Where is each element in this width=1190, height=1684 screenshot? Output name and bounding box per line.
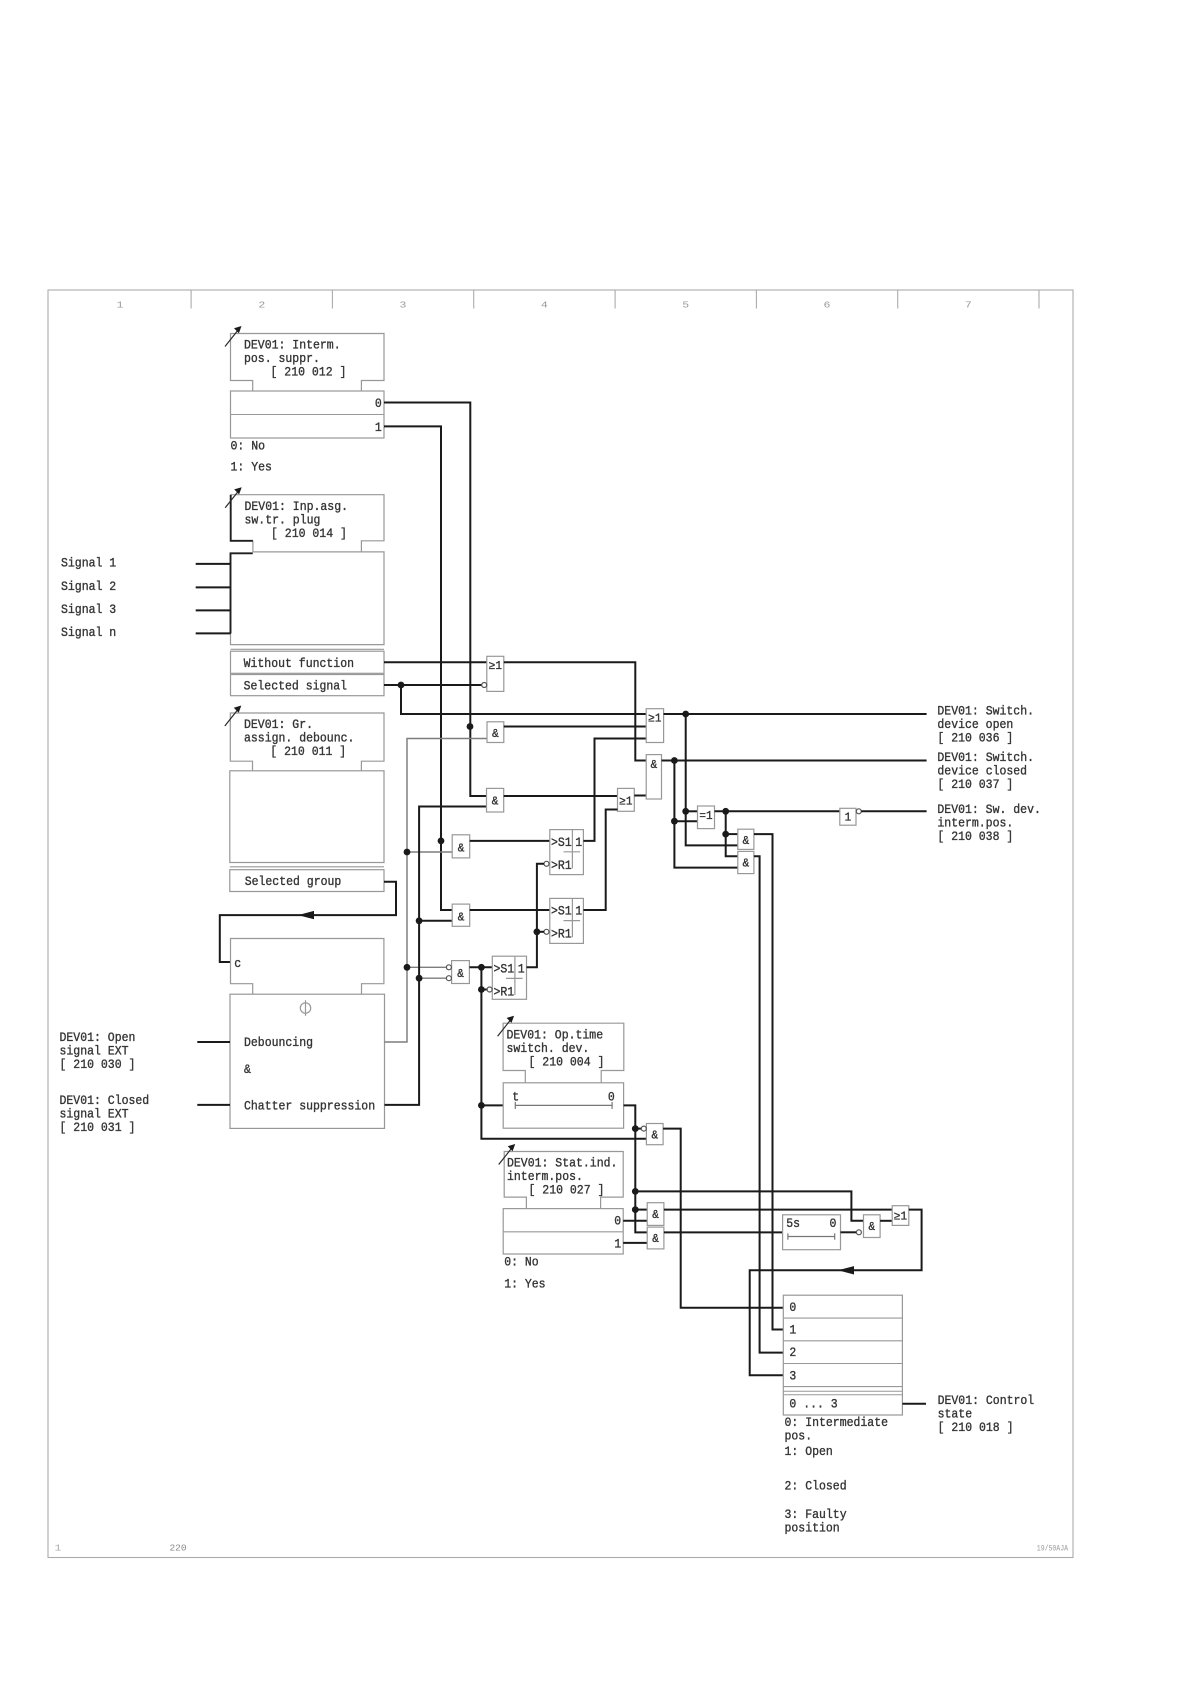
wire: 210 012 value 0 to AND gates (net A0) [384, 403, 487, 797]
output label DEV01: Sw. dev. interm.pos. [ 210 038 ] [937, 802, 1041, 844]
flip-flop FF2 (closed state) [550, 898, 584, 943]
svg-text:&: & [492, 796, 499, 809]
svg-text:1: 1 [575, 835, 582, 850]
wire: inverter output to DEV01 Sw. dev. interm.pos. [861, 810, 926, 812]
output label DEV01: Switch. device closed [ 210 037 ] [937, 750, 1034, 792]
svg-text:0: No: 0: No [504, 1254, 539, 1269]
svg-text:1: 1 [614, 1236, 621, 1251]
svg-text:7: 7 [965, 300, 972, 311]
wire: FF2 output to OR gate G4 [583, 810, 617, 911]
wire: FF1 output to OR gate G5 [583, 739, 646, 841]
svg-text:&: & [651, 759, 658, 772]
column scale ticks and numbers [117, 290, 1039, 311]
wire: G11 output to control state row 0 [663, 1129, 783, 1308]
svg-text:6: 6 [824, 300, 831, 311]
wire: G3 output to OR gate G4 [504, 795, 618, 797]
FF2 R1 negation [544, 929, 549, 934]
group assignment box 210 011 [230, 771, 384, 863]
parameter header DEV01: Gr. assign. debounc. [ 210 011 ] [225, 706, 384, 771]
svg-text:[ 210 037 ]: [ 210 037 ] [937, 777, 1013, 792]
wire: G15 output to 5s timer input [664, 1231, 783, 1233]
wire: Signal 1 input [196, 563, 231, 565]
svg-text:&: & [458, 842, 465, 855]
wire: G10 output to FF3 S1/R1, op-time timer and AND G11 (net CHG) [469, 964, 646, 1139]
selector box 210 027 values 0/1 [503, 1209, 623, 1254]
input label DEV01: Closed signal EXT [ 210 031 ] [60, 1093, 150, 1135]
wire: G9 output to FF2 S1 [470, 909, 550, 911]
svg-text:1: 1 [117, 300, 124, 311]
row Selected group [230, 870, 384, 892]
svg-text:1: 1 [518, 962, 525, 977]
svg-text:0: No: 0: No [231, 438, 266, 453]
svg-text:0: 0 [375, 396, 382, 411]
value label 1: Yes [231, 460, 272, 475]
input label Signal 2 [61, 579, 116, 594]
parameter header DEV01: Interm. pos. suppr. [ 210 012 ] [225, 326, 384, 391]
AND gate G13 (control state closed) [738, 851, 754, 873]
footer drawing code 19/50AJA [1037, 1545, 1068, 1554]
svg-text:[ 210 031 ]: [ 210 031 ] [60, 1120, 136, 1135]
wire: G1 output to AND gate G7 (net WF) [504, 662, 646, 760]
value label 1: Yes (210 027) [504, 1276, 545, 1291]
FF3 R1 negation [487, 987, 492, 992]
svg-text:≥1: ≥1 [489, 660, 502, 673]
wire: 210 027 value 1 to AND gate G15 [623, 1242, 647, 1244]
wire: 210 027 value 0 to AND gate G14 [623, 1220, 647, 1222]
svg-text:>S1: >S1 [551, 904, 572, 919]
value label 2: Closed [785, 1478, 847, 1493]
svg-text:>R1: >R1 [494, 984, 515, 999]
svg-text:1: 1 [845, 811, 852, 824]
separator line under group box [230, 866, 384, 868]
svg-text:position: position [785, 1521, 840, 1536]
wire: FF3 output to FF1/FF2 reset inputs [527, 864, 545, 968]
svg-text:&: & [457, 968, 464, 981]
svg-text:2: 2 [258, 300, 265, 311]
wire: G13 output to control state row 2 [754, 856, 783, 1352]
input label Signal 1 [61, 556, 116, 571]
svg-text:[ 210 011 ]: [ 210 011 ] [270, 744, 346, 759]
flip-flop FF1 (open state) [550, 830, 584, 875]
svg-text:Signal 2: Signal 2 [61, 579, 116, 594]
svg-text:>S1: >S1 [551, 835, 572, 850]
svg-text:Debouncing: Debouncing [244, 1035, 313, 1050]
input label DEV01: Open signal EXT [ 210 030 ] [60, 1030, 136, 1072]
value label 1: Open [785, 1444, 833, 1459]
OR gate G1 >=1 [482, 656, 504, 691]
svg-text:Selected group: Selected group [245, 874, 342, 889]
svg-text:2: 2 [789, 1345, 796, 1360]
wire: closed signal EXT input [197, 1104, 230, 1106]
row Selected signal [231, 675, 385, 696]
svg-text:Signal 3: Signal 3 [61, 602, 116, 617]
wire: G17 output feedback to control state row 3 (with left arrowhead) [750, 1210, 922, 1376]
AND gate G12 (control state open) [738, 829, 754, 849]
wire: G4 output to AND gate G7 [634, 795, 646, 797]
svg-text:c: c [234, 956, 241, 971]
svg-text:1: Yes: 1: Yes [504, 1276, 545, 1291]
svg-text:1: Open: 1: Open [785, 1444, 833, 1459]
wire: Selected group feedback to c box (with left arrowhead) [220, 882, 396, 962]
svg-text:=1: =1 [699, 810, 712, 823]
OR gate G17 >=1 [892, 1206, 909, 1226]
svg-text:0: 0 [789, 1300, 796, 1315]
wire: Selected signal to OR gate G1 (negated) and to OR gate G5 (net SEL) [384, 682, 646, 714]
svg-text:&: & [652, 1209, 659, 1222]
svg-text:5: 5 [682, 300, 689, 311]
footer sheet number 1 [55, 1544, 62, 1554]
svg-text:>R1: >R1 [551, 858, 572, 873]
svg-text:&: & [652, 1233, 659, 1246]
svg-text:[ 210 038 ]: [ 210 038 ] [937, 829, 1013, 844]
OR gate G4 >=1 [618, 788, 635, 811]
svg-text:2: Closed: 2: Closed [785, 1478, 847, 1493]
wire: control state output [902, 1403, 926, 1405]
svg-text:[ 210 004 ]: [ 210 004 ] [529, 1054, 605, 1069]
svg-text:1: 1 [789, 1322, 796, 1337]
svg-text:Signal n: Signal n [61, 625, 116, 640]
svg-text:1: 1 [575, 904, 582, 919]
svg-text:4: 4 [541, 300, 548, 311]
AND gate G8 (set open FF) [438, 835, 470, 858]
flip-flop FF3 (change memory) [492, 956, 526, 999]
parameter header DEV01: Op.time switch. dev. [ 210 004 ] [498, 1016, 624, 1083]
wire: 5s timer output to AND gate G16 (negated) [841, 1231, 857, 1233]
wire: debounced open signal net (gray) [385, 739, 488, 1043]
wire: Signal 2 input [196, 586, 231, 588]
c box (selected group register) [231, 939, 384, 995]
svg-text:>S1: >S1 [494, 962, 515, 977]
svg-text:≥1: ≥1 [648, 713, 661, 726]
svg-text:[ 210 030 ]: [ 210 030 ] [60, 1057, 136, 1072]
svg-text:Without function: Without function [244, 656, 354, 671]
svg-text:&: & [244, 1062, 251, 1077]
svg-text:Selected signal: Selected signal [244, 679, 348, 694]
control state selector block [783, 1295, 902, 1415]
svg-text:[ 210 012 ]: [ 210 012 ] [271, 365, 347, 380]
wire: Without function to OR gate G1 [384, 661, 487, 663]
svg-text:Signal 1: Signal 1 [61, 556, 116, 571]
row Without function [231, 651, 385, 673]
svg-text:&: & [743, 835, 750, 848]
value label 0: No [231, 438, 266, 453]
wire: open signal EXT input [197, 1041, 230, 1043]
svg-text:5s: 5s [786, 1216, 800, 1231]
output label DEV01: Switch. device open [ 210 036 ] [937, 703, 1034, 745]
input label Signal n [61, 625, 116, 640]
svg-text:&: & [652, 1129, 659, 1142]
inverter gate 1 [840, 808, 862, 825]
svg-text:>R1: >R1 [551, 927, 572, 942]
svg-text:0 ... 3: 0 ... 3 [789, 1396, 837, 1411]
output label DEV01: Control state [ 210 018 ] [938, 1393, 1035, 1435]
svg-text:pos.: pos. [785, 1429, 813, 1444]
wire: G8 output to FF1 S1 [470, 840, 550, 842]
input label Signal 3 [61, 602, 116, 617]
svg-text:220: 220 [169, 1543, 186, 1554]
op time timer box t/0 [503, 1083, 623, 1128]
svg-text:0: 0 [830, 1216, 837, 1231]
svg-text:3: 3 [400, 300, 407, 311]
wire: Signal n input [196, 632, 231, 634]
AND gate G16 [856, 1215, 880, 1238]
footer page number 220 [169, 1543, 186, 1554]
AND gate G3 (value0 & closed) [487, 788, 504, 812]
wire: G7 output to DEV01 Switch. device closed (net CL) [662, 757, 927, 868]
parameter header DEV01: Stat.ind. interm.pos. [ 210 027 ] [499, 1144, 624, 1209]
input assignment box 210 014 [231, 552, 385, 645]
wire: debounced closed signal net [385, 807, 487, 1105]
svg-text:1: 1 [55, 1544, 62, 1554]
wire: G12 output to control state row 1 [754, 834, 783, 1329]
wire: 210 012 value 1 to AND gates (net A1) [384, 426, 452, 910]
wire: Signal 3 input [196, 609, 231, 611]
wire: G14 output to OR gate G17 [664, 1209, 892, 1211]
AND gate G14 (status indication) [647, 1203, 664, 1226]
page frame border [48, 290, 1073, 1558]
svg-text:&: & [492, 728, 499, 741]
FF1 R1 negation [544, 861, 549, 866]
selector box 210 012 values 0/1 [231, 391, 385, 438]
svg-text:1: Yes: 1: Yes [231, 460, 272, 475]
svg-text:0: 0 [614, 1214, 621, 1229]
AND gate G9 (set closed FF) [452, 904, 470, 926]
separator line under input box [231, 648, 385, 650]
svg-text:1: 1 [375, 420, 382, 435]
svg-text:≥1: ≥1 [619, 795, 632, 808]
svg-text:Chatter suppression: Chatter suppression [244, 1099, 375, 1114]
OR gate G5 >=1 (switching device open) [646, 709, 663, 743]
wire: G16 output to OR gate G17 [880, 1220, 892, 1222]
svg-text:≥1: ≥1 [894, 1210, 907, 1223]
wire: G5 output to DEV01 Switch. device open (net OP) [664, 711, 927, 846]
value label 0: No (210 027) [504, 1254, 539, 1269]
svg-text:&: & [869, 1221, 876, 1234]
AND gate G11 (faulty position detect) [641, 1124, 663, 1145]
svg-text:0: 0 [608, 1089, 615, 1104]
wire: G6 output to inverter and AND gates (net XO) [715, 808, 840, 856]
5s timer box [783, 1215, 841, 1250]
parameter header DEV01: Inp.asg. sw.tr. plug [ 210 014 ] [225, 487, 384, 552]
XOR gate G6 =1 [698, 806, 715, 829]
value label 0: Intermediate pos. [785, 1415, 889, 1444]
AND gate G2 (value0 & open) [467, 722, 504, 743]
wire: op-time timer output net (net TO) [624, 1105, 864, 1232]
wire: G2 output to OR gate G5 [504, 726, 646, 728]
debouncing and chatter suppression box [230, 994, 385, 1128]
AND gate G10 (both signals gone, negated inputs) [446, 961, 469, 984]
svg-text:&: & [458, 911, 465, 924]
svg-text:19/50AJA: 19/50AJA [1037, 1545, 1068, 1554]
svg-text:[ 210 014 ]: [ 210 014 ] [271, 526, 347, 541]
svg-text:[ 210 027 ]: [ 210 027 ] [529, 1183, 605, 1198]
svg-text:3: 3 [789, 1368, 796, 1383]
AND gate G15 (timer start) [647, 1227, 664, 1249]
value label 3: Faulty position [785, 1507, 847, 1536]
svg-text:[ 210 036 ]: [ 210 036 ] [937, 730, 1013, 745]
svg-text:&: & [743, 858, 750, 871]
AND gate G7 (switching device closed) [646, 755, 661, 799]
svg-text:[ 210 018 ]: [ 210 018 ] [938, 1420, 1014, 1435]
